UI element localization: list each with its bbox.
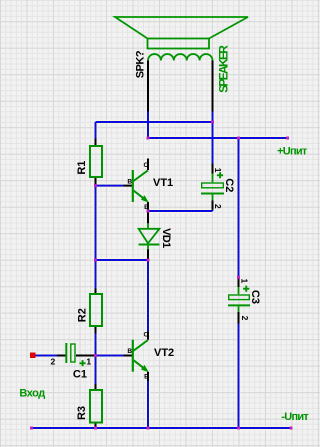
svg-text:SPEAKER: SPEAKER bbox=[217, 45, 231, 93]
svg-text:C: C bbox=[144, 332, 149, 339]
svg-text:VD1: VD1 bbox=[160, 228, 172, 248]
svg-text:-Uпит: -Uпит bbox=[281, 411, 309, 423]
svg-text:2: 2 bbox=[51, 356, 56, 366]
svg-text:E: E bbox=[144, 374, 149, 381]
svg-text:2: 2 bbox=[213, 204, 223, 209]
svg-text:R3: R3 bbox=[76, 406, 88, 420]
svg-text:SPK?: SPK? bbox=[134, 50, 146, 78]
svg-text:2: 2 bbox=[240, 316, 250, 321]
svg-text:C1: C1 bbox=[73, 368, 87, 380]
svg-text:B: B bbox=[127, 348, 132, 355]
svg-text:E: E bbox=[144, 204, 149, 211]
svg-text:1: 1 bbox=[86, 356, 91, 366]
svg-text:C2: C2 bbox=[223, 178, 235, 192]
svg-text:1: 1 bbox=[240, 279, 250, 284]
svg-text:C3: C3 bbox=[249, 290, 261, 304]
svg-text:Вход: Вход bbox=[19, 388, 45, 400]
svg-text:+Uпит: +Uпит bbox=[277, 145, 308, 157]
svg-text:VT1: VT1 bbox=[153, 177, 173, 189]
svg-text:1: 1 bbox=[213, 168, 223, 173]
svg-text:R1: R1 bbox=[76, 161, 88, 175]
svg-text:B: B bbox=[127, 178, 132, 185]
svg-text:VT2: VT2 bbox=[154, 347, 174, 359]
svg-text:R2: R2 bbox=[77, 308, 89, 322]
svg-text:C: C bbox=[144, 162, 149, 169]
